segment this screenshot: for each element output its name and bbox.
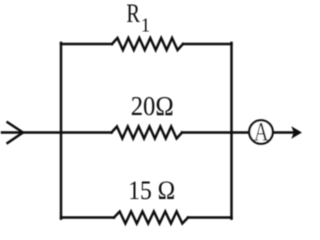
wire: right vertical bus xyxy=(230,43,232,219)
wire: ammeter output line xyxy=(273,131,297,133)
wire: top branch left lead xyxy=(61,43,112,45)
current arrow head (input, open V) xyxy=(8,122,24,143)
wire: left vertical bus xyxy=(60,43,62,219)
output arrow head (filled) xyxy=(292,127,301,137)
resistor 15 ohm zigzag xyxy=(114,212,188,224)
svg-text:1: 1 xyxy=(141,14,150,36)
ammeter A1 circle xyxy=(249,120,273,144)
resistor R1 zigzag xyxy=(112,38,183,50)
wire: middle branch input from left edge with junctions xyxy=(2,131,112,133)
svg-text:A: A xyxy=(254,117,269,146)
resistor 20 ohm zigzag xyxy=(112,127,183,139)
wire: bottom branch right lead xyxy=(188,216,232,218)
svg-text:R: R xyxy=(126,0,140,28)
wire: middle branch to ammeter xyxy=(182,131,249,133)
svg-text:15 Ω: 15 Ω xyxy=(128,176,175,205)
wire: bottom branch left lead xyxy=(61,216,114,218)
wire: top branch right lead xyxy=(183,43,232,45)
svg-text:20Ω: 20Ω xyxy=(131,91,174,121)
